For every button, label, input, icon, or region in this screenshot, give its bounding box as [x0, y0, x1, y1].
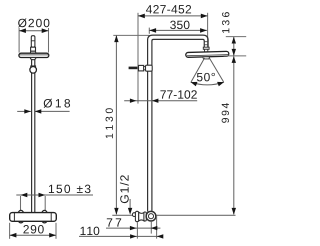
dim Ø200 arrow left	[19, 28, 26, 33]
50° cone leg left	[191, 58, 204, 82]
riser pipe (front)	[31, 60, 33, 213]
dim 77-102 arrow right	[152, 99, 159, 103]
50° arc arrow right	[217, 82, 224, 86]
dim 427-452 extension line right	[207, 13, 209, 48]
label 994 (rotated)	[222, 103, 229, 123]
50° arc	[191, 82, 224, 85]
label 1130 (rotated)	[106, 108, 113, 138]
ext line x137.4 (bottom dims)	[136, 222, 138, 238]
label 77	[107, 218, 121, 226]
label Ø200	[18, 19, 49, 28]
dim 150±3 arrow right	[39, 193, 46, 198]
label 427-452	[146, 5, 191, 13]
head nub below	[203, 57, 210, 59]
dim 77-102 arrow left	[130, 99, 137, 103]
dim 1130 top extension line	[113, 34, 149, 36]
wall bracket body	[139, 65, 144, 71]
bottom reference line left segment	[112, 214, 134, 216]
mixer body circle (side)	[146, 211, 156, 221]
wall bracket pin	[129, 67, 138, 70]
dim 1130 arrow top	[114, 35, 118, 42]
50° arc arrow left	[191, 82, 198, 86]
dim 150±3 dimension line	[16, 194, 93, 196]
dim 290 extension line right	[55, 223, 57, 239]
dim Ø18 arrow left	[24, 109, 31, 113]
dim 1130 arrow bottom	[114, 208, 118, 215]
dim 350 arrow left	[149, 28, 156, 33]
mixer valve dome left (front)	[17, 210, 24, 223]
dim 136 top extension line	[226, 36, 246, 38]
label Ø18	[44, 99, 70, 108]
ball joint (front)	[30, 67, 37, 74]
label 110	[81, 227, 100, 235]
stem flare	[30, 51, 36, 53]
dim Ø200 dimension line	[19, 30, 48, 32]
mixer inner circle (side)	[148, 214, 153, 219]
dim 427-452 arrow left	[138, 14, 145, 19]
dim 427-452 extension line left	[137, 13, 139, 104]
shower head disc (side)	[186, 51, 229, 57]
mixer body (front)	[10, 213, 57, 222]
dim 290 extension line left	[9, 223, 11, 239]
label 136 (rotated)	[222, 12, 229, 33]
dim 427-452 arrow right	[201, 14, 208, 19]
dim 136 vertical line	[233, 37, 235, 56]
dim 350 arrow right	[200, 28, 207, 33]
mixer cap line right	[50, 213, 52, 222]
dim 994 arrow bottom	[232, 208, 236, 215]
stem joint line	[31, 40, 35, 42]
wall bracket neck	[144, 67, 146, 70]
label 50°	[197, 73, 215, 81]
dim 110 arrow right	[157, 234, 164, 238]
dim 136 arrow top	[232, 37, 236, 44]
pipe clamp ring	[146, 65, 153, 71]
bottom reference line right segment	[156, 214, 236, 216]
dim 136 bottom extension line	[224, 55, 247, 57]
dim 77 dimension line	[106, 227, 160, 229]
label G1/2 (rotated)	[120, 175, 129, 203]
dim 150±3 extension line right	[44, 196, 46, 210]
dim 110 arrow left	[130, 234, 137, 238]
label 77-102	[160, 90, 196, 98]
dim 77 arrow left	[130, 226, 137, 230]
ext line x151.3 (bottom dims)	[150, 221, 152, 233]
outlet hourglass	[139, 212, 144, 221]
dim 290 arrow left	[10, 233, 17, 238]
ball joint collar (front)	[31, 66, 36, 68]
mixer cap line left	[13, 213, 15, 222]
column pipe outer contour (side)	[148, 35, 209, 211]
shower head disc (front)	[19, 53, 49, 57]
outlet tip circle (side)	[132, 213, 136, 217]
dim 427-452 dimension line	[138, 15, 208, 17]
head drop joint line	[204, 41, 208, 43]
G1/2 leader line	[129, 199, 131, 209]
disc bottom bulge	[30, 58, 36, 60]
label 290	[23, 225, 43, 233]
dim 290 arrow right	[49, 233, 56, 238]
dim Ø200 arrow right	[42, 28, 49, 33]
dim 994 arrow top	[232, 56, 236, 63]
shower head stem (front)	[31, 36, 35, 48]
head connector neck	[205, 49, 208, 52]
dim Ø200 extension line left	[18, 28, 20, 53]
head connector collar (side)	[203, 47, 209, 49]
outlet flange right	[144, 212, 146, 221]
dim Ø18 arrow right	[35, 109, 42, 113]
column pipe inner contour (side)	[152, 39, 204, 211]
G1/2 leader arrow	[128, 208, 132, 215]
label 350	[170, 21, 189, 29]
outlet flange left	[135, 211, 138, 221]
dim 77-102 dimension line	[124, 100, 197, 102]
mixer valve dome right (front)	[41, 210, 48, 223]
dim 136 arrow bottom	[232, 49, 236, 56]
head drop joint line 2	[204, 44, 208, 46]
dim 1130 vertical line	[115, 36, 117, 215]
dim 290 dimension line	[10, 234, 56, 236]
dim 150±3 arrow left	[21, 193, 28, 198]
dim 77 arrow right	[151, 226, 158, 230]
50° cone leg right	[209, 58, 223, 82]
dim 110 dimension line	[79, 235, 163, 237]
stem collar	[31, 47, 36, 51]
dim 150±3 extension line left	[20, 196, 22, 210]
dim 350 dimension line	[149, 29, 207, 31]
dim Ø18 dimension line left seg	[17, 110, 31, 112]
disc inner line	[20, 54, 48, 56]
label 150 ±3	[49, 185, 91, 193]
dim 994 vertical line	[233, 56, 235, 214]
ext line x156.6 (bottom dims)	[156, 216, 158, 239]
dim 350 extension line left	[148, 28, 150, 34]
dim Ø200 extension line right	[48, 28, 50, 53]
dim Ø18 dimension line right seg	[35, 110, 70, 112]
